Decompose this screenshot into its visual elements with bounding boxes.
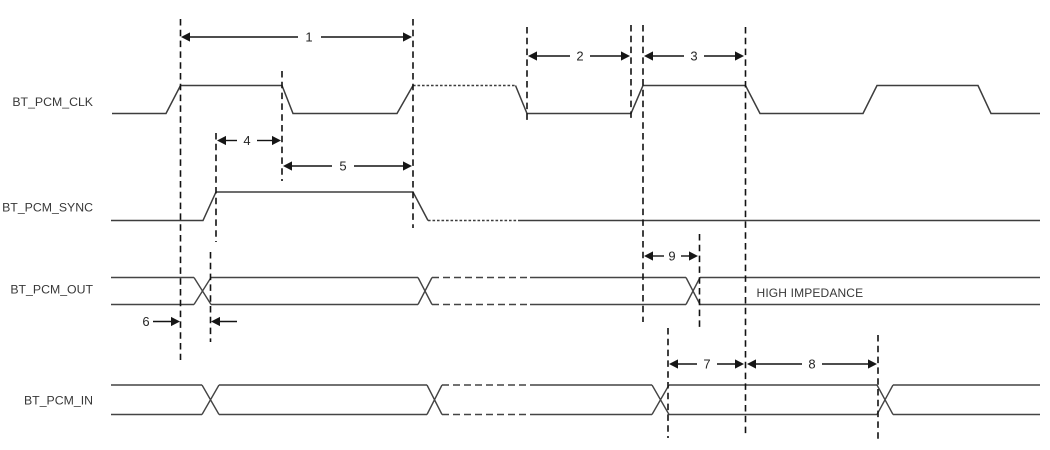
dimension arrow 4 <box>217 133 281 148</box>
BT_PCM_IN bus rails segment 3 <box>530 385 652 415</box>
timing reference line V7 x=643 <box>642 25 644 322</box>
BT_PCM_CLK waveform solid left part <box>112 86 413 114</box>
timing reference line V11 x=878 <box>877 335 879 442</box>
BT_PCM_OUT crossover X3 <box>686 278 700 305</box>
BT_PCM_CLK waveform solid right part <box>516 86 1041 114</box>
svg-text:8: 8 <box>808 357 815 372</box>
timing reference line V2a x=216 <box>215 133 217 242</box>
dimension arrow 9 <box>644 249 698 264</box>
svg-text:6: 6 <box>142 314 149 329</box>
timing reference line V9 x=745 <box>745 27 747 437</box>
BT_PCM_IN bus rails segment 1 <box>111 385 202 415</box>
BT_PCM_OUT dashed bus rails <box>432 278 530 305</box>
timing reference line V2b x=210 <box>210 252 212 342</box>
svg-text:BT_PCM_IN: BT_PCM_IN <box>24 394 93 408</box>
svg-text:9: 9 <box>668 249 675 264</box>
BT_PCM_OUT bus rails segment 4 high impedance <box>700 278 1040 305</box>
BT_PCM_IN crossover X3 <box>652 385 669 415</box>
timing reference line V4 x=413 <box>412 19 414 228</box>
BT_PCM_OUT crossover X2 <box>418 278 432 305</box>
BT_PCM_IN dashed bus rails <box>442 385 530 415</box>
svg-text:BT_PCM_SYNC: BT_PCM_SYNC <box>2 200 93 214</box>
timing reference line V6 x=631 <box>630 25 632 121</box>
svg-text:5: 5 <box>339 159 346 174</box>
BT_PCM_OUT crossover X1 <box>194 278 211 305</box>
BT_PCM_IN crossover X1 <box>202 385 219 415</box>
dimension arrow 6 right part <box>211 317 237 326</box>
svg-text:HIGH IMPEDANCE: HIGH IMPEDANCE <box>757 286 864 300</box>
timing reference line V8 x=700 <box>699 234 701 328</box>
svg-text:BT_PCM_CLK: BT_PCM_CLK <box>12 95 93 109</box>
dimension arrow 8 <box>747 357 877 372</box>
svg-text:2: 2 <box>576 49 583 64</box>
dimension arrow 6 left part <box>142 314 180 329</box>
BT_PCM_IN bus rails segment 4 <box>669 385 877 415</box>
BT_PCM_OUT bus rails segment 3 <box>530 278 686 305</box>
dimension arrow 1 <box>181 30 412 45</box>
BT_PCM_IN crossover X2 <box>427 385 442 415</box>
svg-text:7: 7 <box>703 357 710 372</box>
timing reference line V5 x=527 <box>526 27 528 122</box>
svg-text:1: 1 <box>305 30 312 45</box>
svg-text:BT_PCM_OUT: BT_PCM_OUT <box>10 283 93 297</box>
dimension arrow 7 <box>669 357 744 372</box>
BT_PCM_OUT bus rails segment 2 <box>211 278 418 305</box>
timing reference line V3 x=282 <box>281 71 283 181</box>
BT_PCM_SYNC waveform dotted low segment <box>428 220 518 222</box>
timing reference line V1 x=180 <box>180 19 182 360</box>
BT_PCM_IN bus rails segment 5 <box>893 385 1040 415</box>
timing reference line V10 x=668 <box>667 328 669 438</box>
BT_PCM_SYNC waveform solid right part <box>518 220 1040 222</box>
BT_PCM_OUT bus rails segment 1 <box>111 278 194 305</box>
dimension arrow 3 <box>644 49 744 64</box>
svg-text:4: 4 <box>243 133 250 148</box>
BT_PCM_SYNC waveform solid left part <box>111 192 428 221</box>
BT_PCM_IN crossover X4 <box>877 385 893 415</box>
svg-text:3: 3 <box>690 49 697 64</box>
dimension arrow 2 <box>528 49 630 64</box>
BT_PCM_CLK waveform dotted high segment <box>413 85 516 87</box>
dimension arrow 5 <box>283 159 412 174</box>
BT_PCM_IN bus rails segment 2 <box>219 385 427 415</box>
